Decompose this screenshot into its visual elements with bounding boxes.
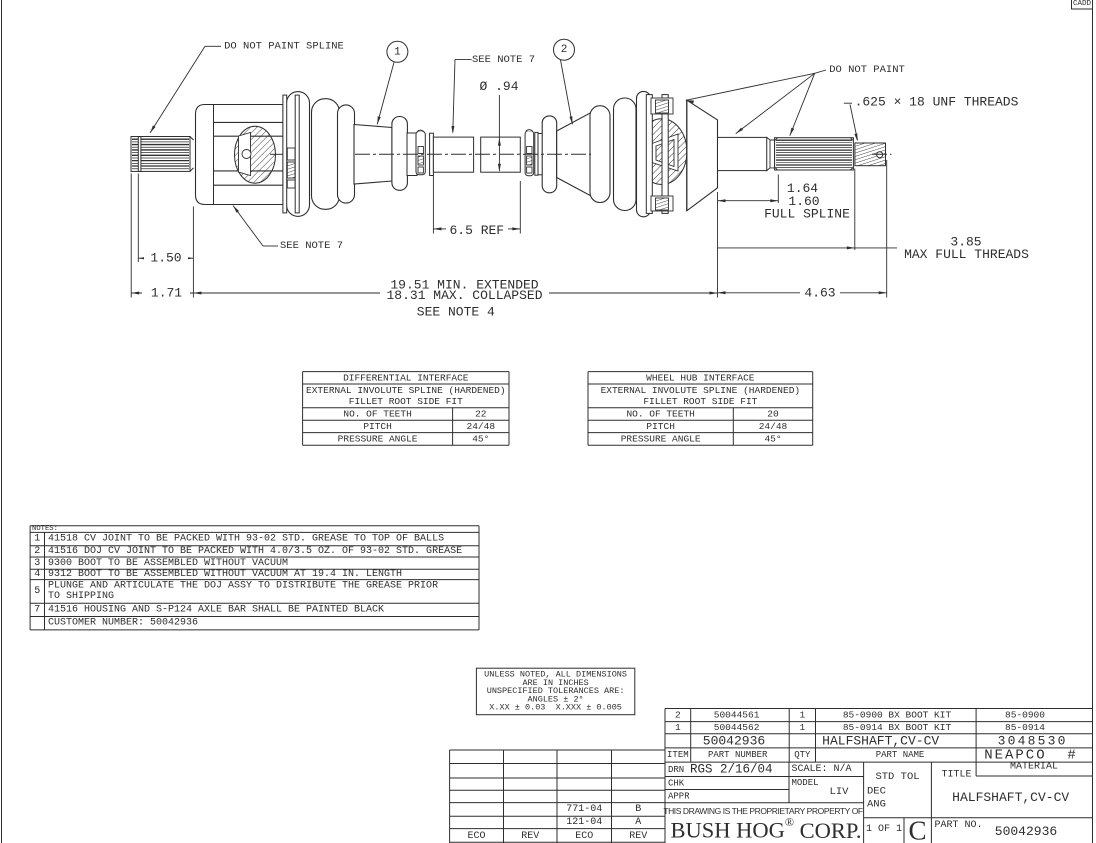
svg-text:SCALE: N/A: SCALE: N/A	[792, 763, 852, 775]
svg-text:1: 1	[394, 46, 401, 58]
svg-text:24/48: 24/48	[759, 421, 788, 432]
svg-text:A: A	[635, 817, 641, 828]
left boot small-end bulge	[392, 117, 408, 191]
svg-text:PART NAME: PART NAME	[876, 750, 925, 760]
svg-text:5: 5	[34, 586, 40, 597]
svg-text:85-0900 BX BOOT KIT: 85-0900 BX BOOT KIT	[843, 710, 952, 721]
ECO REV revision table	[450, 749, 665, 751]
right boot cone	[557, 112, 592, 197]
svg-text:WHEEL HUB INTERFACE: WHEEL HUB INTERFACE	[646, 373, 755, 384]
parts list table	[665, 708, 1093, 710]
svg-text:X.XX ± 0.03 X.XXX ± 0.005: X.XX ± 0.03 X.XXX ± 0.005	[489, 703, 622, 713]
inner ball cage hatched - right joint	[637, 119, 687, 185]
svg-text:NO. OF TEETH: NO. OF TEETH	[343, 409, 411, 420]
dim 1.50	[138, 257, 193, 259]
left boot clamp band 1	[283, 95, 287, 213]
svg-text:22: 22	[475, 409, 487, 420]
dim 6.5 REF	[433, 228, 446, 230]
svg-text:PRESSURE ANGLE: PRESSURE ANGLE	[338, 434, 418, 445]
svg-text:85-0914 BX BOOT KIT: 85-0914 BX BOOT KIT	[843, 722, 952, 733]
svg-text:PITCH: PITCH	[363, 421, 392, 432]
svg-text:CADD: CADD	[1073, 0, 1092, 8]
dim 1.64 1.60 FULL SPLINE	[718, 200, 779, 202]
svg-text:SEE NOTE 4: SEE NOTE 4	[417, 305, 495, 320]
svg-text:24/48: 24/48	[467, 421, 496, 432]
svg-text:2: 2	[561, 44, 568, 56]
svg-text:C: C	[908, 816, 926, 843]
svg-text:20: 20	[767, 409, 779, 420]
right boot big-end clamp band 1	[646, 95, 652, 214]
svg-text:50044562: 50044562	[714, 722, 760, 733]
svg-text:HALFSHAFT,CV-CV: HALFSHAFT,CV-CV	[822, 733, 939, 748]
right boot small-end bulge	[542, 116, 557, 193]
svg-text:ECO: ECO	[575, 831, 593, 842]
inner ball cage hatched - left joint	[235, 126, 276, 183]
svg-text:DRN: DRN	[668, 765, 684, 775]
leaders DO NOT PAINT	[815, 70, 826, 73]
sheet right border	[1092, 0, 1094, 843]
extension line housing face right	[717, 192, 719, 298]
extension line spline end right	[777, 175, 779, 204]
right boot big-end clamp band 2	[662, 95, 668, 214]
svg-text:PRESSURE ANGLE: PRESSURE ANGLE	[621, 434, 701, 445]
svg-text:41516 DOJ CV JOINT TO BE PACKE: 41516 DOJ CV JOINT TO BE PACKED WITH 4.0…	[48, 545, 462, 557]
right boot convolution 3	[637, 91, 651, 216]
svg-text:FILLET ROOT SIDE FIT: FILLET ROOT SIDE FIT	[643, 396, 757, 407]
svg-text:MATERIAL: MATERIAL	[1010, 761, 1058, 772]
svg-text:REV: REV	[521, 831, 539, 842]
right clamp screw bottom	[651, 196, 673, 211]
sheet left border	[1, 0, 3, 843]
svg-text:PLUNGE AND ARTICULATE THE DOJ: PLUNGE AND ARTICULATE THE DOJ ASSY TO DI…	[48, 581, 438, 592]
svg-text:6.5 REF: 6.5 REF	[449, 223, 504, 238]
left boot convolution 3	[338, 105, 355, 203]
svg-text:9300 BOOT TO BE ASSEMBLED WITH: 9300 BOOT TO BE ASSEMBLED WITHOUT VACUUM	[48, 558, 288, 569]
svg-text:QTY: QTY	[794, 750, 811, 760]
svg-text:50042936: 50042936	[703, 733, 765, 748]
leader SEE NOTE 7 top	[455, 58, 472, 60]
svg-text:4: 4	[34, 569, 40, 580]
right boot neck	[538, 134, 543, 175]
svg-text:1.71: 1.71	[151, 286, 182, 301]
svg-text:45°: 45°	[472, 434, 489, 445]
dim 19.51 extended / 18.31 collapsed	[193, 292, 380, 294]
balloon 1	[387, 41, 408, 62]
svg-text:TITLE: TITLE	[942, 770, 972, 781]
svg-text:THIS DRAWING IS THE PROPRIETAR: THIS DRAWING IS THE PROPRIETARY PROPERTY…	[663, 806, 863, 816]
svg-text:NO. OF TEETH: NO. OF TEETH	[626, 409, 694, 420]
svg-text:MAX FULL THREADS: MAX FULL THREADS	[904, 247, 1029, 262]
svg-text:ITEM: ITEM	[667, 750, 689, 760]
wheel-side stub shaft	[718, 137, 767, 170]
balloon 1 leader	[377, 62, 394, 124]
svg-text:771-04: 771-04	[566, 804, 602, 815]
right boot convolution 2	[614, 98, 637, 211]
svg-text:ANG: ANG	[867, 799, 886, 811]
svg-text:2: 2	[675, 710, 681, 721]
svg-text:NOTES:: NOTES:	[32, 525, 58, 533]
title block frame	[664, 762, 666, 843]
dia .94 dimension line	[498, 95, 500, 171]
extension lines left dims	[130, 174, 132, 298]
svg-text:7: 7	[34, 605, 40, 616]
svg-text:EXTERNAL INVOLUTE SPLINE (HARD: EXTERNAL INVOLUTE SPLINE (HARDENED)	[306, 385, 506, 396]
axle bar segment 2	[481, 137, 521, 172]
left spline end chamfer	[190, 137, 194, 141]
stub shaft neck chamfer	[767, 137, 775, 170]
wheel hub interface table	[588, 371, 813, 373]
UNF threads	[855, 143, 886, 166]
right shaft boot clamp	[525, 131, 534, 176]
thread end chamfer	[885, 146, 887, 164]
left boot cone to small end	[354, 125, 392, 185]
extension lines 6.5 REF	[432, 176, 434, 234]
svg-text:CHK: CHK	[668, 778, 685, 788]
svg-text:9312 BOOT TO BE ASSEMBLED WITH: 9312 BOOT TO BE ASSEMBLED WITHOUT VACUUM…	[48, 569, 402, 580]
svg-text:4.63: 4.63	[804, 285, 835, 300]
svg-text:50042936: 50042936	[995, 824, 1057, 839]
tolerance note box	[476, 668, 634, 715]
svg-text:STD TOL: STD TOL	[875, 771, 919, 783]
svg-text:85-0914: 85-0914	[1005, 722, 1045, 733]
CV joint housing left	[196, 105, 284, 205]
CADD stamp box	[1072, 0, 1093, 9]
svg-text:LIV: LIV	[830, 786, 850, 798]
dim 1.71	[131, 292, 193, 294]
right clamp screw top	[651, 98, 673, 114]
svg-text:MODEL: MODEL	[792, 778, 819, 788]
svg-text:DO NOT PAINT: DO NOT PAINT	[829, 64, 905, 76]
right boot convolution 1	[590, 106, 610, 203]
extension line threads end	[854, 169, 856, 251]
svg-text:85-0900: 85-0900	[1005, 710, 1045, 721]
cotter pin hole	[877, 152, 883, 158]
svg-text:PART NUMBER: PART NUMBER	[708, 750, 768, 760]
svg-text:2: 2	[34, 546, 40, 557]
svg-text:HALFSHAFT,CV-CV: HALFSHAFT,CV-CV	[952, 790, 1069, 805]
ball window left joint	[239, 133, 251, 176]
svg-text:18.31 MAX. COLLAPSED: 18.31 MAX. COLLAPSED	[386, 288, 542, 303]
left boot convolution 2	[312, 99, 340, 210]
svg-text:FULL SPLINE: FULL SPLINE	[764, 207, 850, 222]
svg-text:1: 1	[799, 710, 805, 721]
svg-text:REV: REV	[629, 831, 647, 842]
housing horizontal lines	[214, 121, 284, 123]
left stub shaft spline	[131, 137, 190, 172]
ball window right joint	[652, 134, 678, 171]
svg-text:DIFFERENTIAL INTERFACE: DIFFERENTIAL INTERFACE	[343, 373, 469, 384]
svg-text:3048530: 3048530	[998, 733, 1068, 748]
svg-text:EXTERNAL INVOLUTE SPLINE (HARD: EXTERNAL INVOLUTE SPLINE (HARDENED)	[601, 385, 801, 396]
svg-text:1: 1	[34, 534, 40, 545]
axle bar segment 1	[433, 137, 473, 172]
ball left joint	[242, 150, 251, 159]
left shaft boot clamp	[416, 131, 425, 174]
svg-text:FILLET ROOT SIDE FIT: FILLET ROOT SIDE FIT	[349, 396, 463, 407]
leader UNF threads	[844, 102, 852, 104]
extension line shaft tip	[886, 160, 888, 298]
svg-text:3: 3	[34, 558, 40, 569]
svg-text:41518 CV JOINT TO BE PACKED WI: 41518 CV JOINT TO BE PACKED WITH 93-02 S…	[48, 534, 444, 545]
svg-text:41516 HOUSING AND S-P124 AXLE: 41516 HOUSING AND S-P124 AXLE BAR SHALL …	[48, 605, 384, 616]
left boot clamp screw detail	[287, 148, 295, 160]
housing face line	[213, 105, 215, 205]
right retaining ring strip	[535, 132, 538, 175]
svg-text:PITCH: PITCH	[646, 421, 675, 432]
svg-text:DO NOT PAINT SPLINE: DO NOT PAINT SPLINE	[224, 40, 344, 52]
svg-text:APPR: APPR	[668, 791, 690, 801]
leader DO NOT PAINT SPLINE	[205, 45, 221, 47]
svg-text:Ø .94: Ø .94	[479, 79, 518, 94]
svg-text:SEE NOTE 7: SEE NOTE 7	[280, 240, 343, 252]
svg-text:1: 1	[675, 722, 681, 733]
svg-text:45°: 45°	[764, 434, 781, 445]
svg-text:ECO: ECO	[467, 831, 485, 842]
left boot convolution 1	[287, 92, 310, 217]
svg-text:CUSTOMER NUMBER: 50042936: CUSTOMER NUMBER: 50042936	[48, 618, 198, 629]
svg-text:.625 × 18 UNF THREADS: .625 × 18 UNF THREADS	[855, 95, 1019, 110]
svg-text:DEC: DEC	[867, 786, 886, 798]
left boot clamp band 2	[295, 95, 299, 213]
notes table	[30, 525, 479, 527]
centerline	[270, 153, 283, 155]
left retaining ring strip	[430, 133, 434, 175]
svg-text:TO SHIPPING: TO SHIPPING	[48, 591, 114, 602]
differential interface table	[303, 371, 509, 373]
svg-text:PART NO.: PART NO.	[935, 820, 983, 831]
svg-text:B: B	[635, 804, 641, 815]
svg-text:1 OF 1: 1 OF 1	[866, 824, 902, 835]
left boot neck	[407, 133, 417, 176]
dim 4.63	[718, 292, 801, 294]
balloon 2	[554, 39, 575, 60]
left spline snap ring groove	[138, 137, 141, 172]
balloon 2 leader	[561, 60, 573, 124]
svg-text:1: 1	[799, 722, 805, 733]
svg-text:1.50: 1.50	[150, 251, 181, 266]
svg-text:50044561: 50044561	[714, 710, 760, 721]
wheel spline	[775, 138, 854, 170]
leader SEE NOTE 7 left	[263, 245, 278, 247]
svg-text:121-04: 121-04	[566, 817, 602, 828]
svg-text:RGS 2/16/04: RGS 2/16/04	[690, 763, 773, 777]
svg-text:BUSH HOG® CORP.: BUSH HOG® CORP.	[670, 815, 861, 843]
svg-text:SEE NOTE 7: SEE NOTE 7	[472, 54, 535, 66]
dim 3.85 MAX FULL THREADS	[718, 247, 898, 249]
CV joint housing right bell	[687, 100, 718, 211]
